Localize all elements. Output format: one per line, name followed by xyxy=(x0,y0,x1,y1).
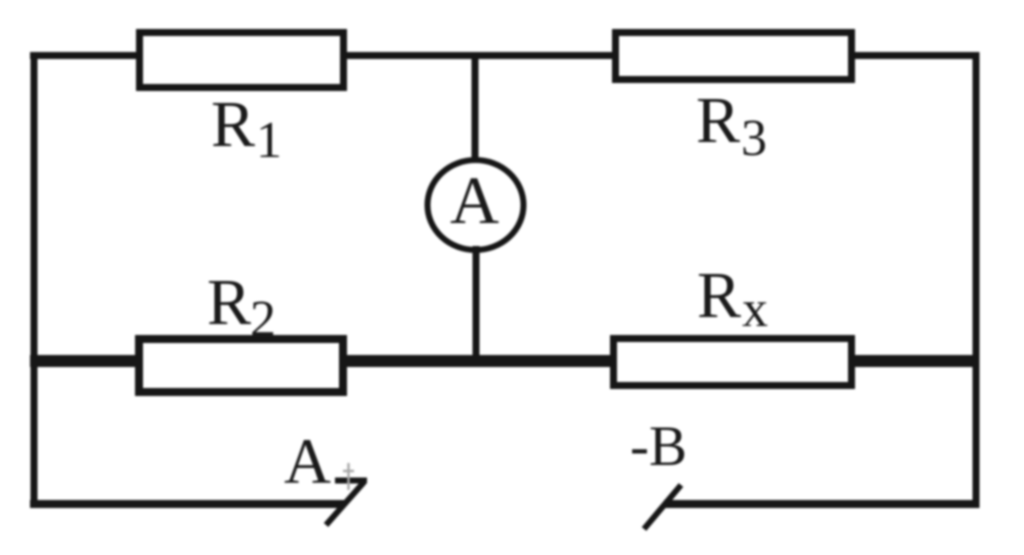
wire : middle wire, center segment (R2 to Rx through node) xyxy=(343,355,615,367)
terminal B : slash xyxy=(644,485,681,529)
resistor R3 xyxy=(616,33,852,80)
svg-text:R: R xyxy=(207,266,251,339)
wire : vertical wire from ammeter to middle wire xyxy=(473,246,480,365)
wire : top wire, right segment (R3 to right rail) xyxy=(852,52,979,59)
wire : bottom wire, left segment xyxy=(30,500,345,508)
terminal A : short stub wire xyxy=(335,478,367,484)
wire : left vertical wire xyxy=(31,52,38,508)
terminal A : slash xyxy=(326,482,364,525)
wire : middle wire, right segment (Rx to right rail) xyxy=(851,355,979,367)
resistor R2 xyxy=(139,339,343,392)
svg-text:R: R xyxy=(697,259,741,332)
resistor Rx xyxy=(614,339,852,386)
wire : vertical wire from top node to ammeter xyxy=(472,55,479,165)
wire : top wire, left segment (left rail to R1) xyxy=(30,52,140,59)
wire : bottom wire, right segment xyxy=(664,500,979,508)
svg-text:A: A xyxy=(284,426,331,498)
svg-text:1: 1 xyxy=(256,112,282,169)
wire : top wire, middle segment (R1 to R3 through node) xyxy=(344,52,615,59)
wire : middle wire, left segment (left rail to R2) xyxy=(30,355,141,367)
svg-text:3: 3 xyxy=(741,110,767,167)
wire : right vertical wire xyxy=(973,52,980,508)
svg-text:R: R xyxy=(211,88,255,161)
resistor R1 xyxy=(140,33,344,88)
svg-text:x: x xyxy=(742,281,768,338)
svg-text:2: 2 xyxy=(250,291,276,348)
terminal A : faint plus mark xyxy=(343,463,354,490)
ammeter U1 circle xyxy=(428,160,524,250)
svg-text:R: R xyxy=(696,84,740,157)
svg-text:-B: -B xyxy=(630,415,687,478)
svg-text:A: A xyxy=(450,162,499,238)
